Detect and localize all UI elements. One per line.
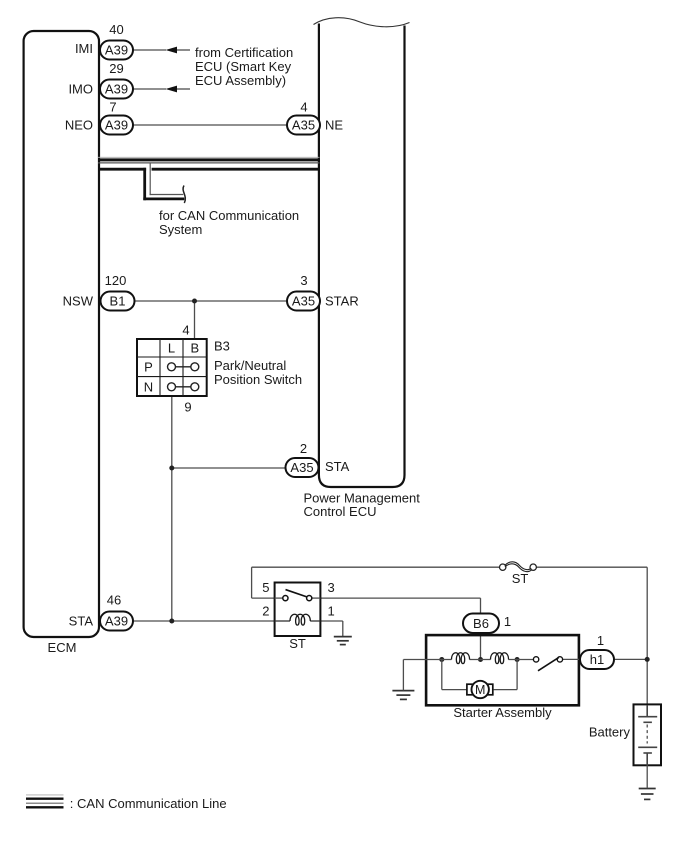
svg-text:B: B [190, 341, 199, 356]
svg-text:A39: A39 [105, 43, 128, 58]
svg-text:2: 2 [262, 604, 269, 619]
svg-text:NE: NE [325, 118, 343, 133]
svg-text:Starter Assembly: Starter Assembly [453, 705, 552, 720]
svg-text:: CAN Communication Line: : CAN Communication Line [70, 796, 227, 811]
svg-text:5: 5 [262, 580, 269, 595]
svg-text:4: 4 [300, 100, 307, 115]
svg-text:29: 29 [109, 61, 123, 76]
svg-text:3: 3 [300, 273, 307, 288]
svg-text:1: 1 [504, 614, 511, 629]
svg-text:4: 4 [182, 323, 189, 338]
svg-text:40: 40 [109, 22, 123, 37]
svg-text:L: L [168, 341, 175, 356]
svg-text:9: 9 [184, 400, 191, 415]
svg-text:STA: STA [325, 459, 350, 474]
svg-text:IMI: IMI [75, 41, 93, 56]
svg-text:Position Switch: Position Switch [214, 372, 302, 387]
svg-text:A35: A35 [290, 460, 313, 475]
svg-text:A39: A39 [105, 614, 128, 629]
svg-text:h1: h1 [590, 652, 604, 667]
svg-text:STA: STA [69, 614, 94, 629]
svg-text:ST: ST [289, 636, 306, 651]
svg-text:P: P [144, 360, 153, 375]
svg-text:ECU (Smart Key: ECU (Smart Key [195, 59, 292, 74]
svg-text:1: 1 [328, 604, 335, 619]
svg-text:1: 1 [597, 633, 604, 648]
svg-text:2: 2 [300, 441, 307, 456]
svg-text:M: M [475, 683, 485, 697]
svg-text:from Certification: from Certification [195, 45, 293, 60]
svg-text:3: 3 [328, 580, 335, 595]
svg-text:IMO: IMO [68, 82, 93, 97]
svg-text:NEO: NEO [65, 118, 93, 133]
svg-text:B3: B3 [214, 339, 230, 354]
svg-text:Control ECU: Control ECU [304, 504, 377, 519]
svg-text:B1: B1 [110, 294, 126, 309]
svg-text:A39: A39 [105, 118, 128, 133]
svg-text:120: 120 [105, 273, 127, 288]
svg-text:ECM: ECM [48, 640, 77, 655]
svg-text:N: N [144, 380, 153, 395]
svg-text:46: 46 [107, 593, 121, 608]
svg-text:A35: A35 [292, 294, 315, 309]
svg-text:Battery: Battery [589, 725, 631, 740]
svg-text:B6: B6 [473, 616, 489, 631]
svg-text:NSW: NSW [63, 294, 94, 309]
svg-text:Park/Neutral: Park/Neutral [214, 358, 286, 373]
svg-text:ST: ST [512, 571, 529, 586]
svg-text:ECU Assembly): ECU Assembly) [195, 73, 286, 88]
svg-text:STAR: STAR [325, 294, 359, 309]
svg-text:7: 7 [109, 100, 116, 115]
svg-text:A39: A39 [105, 82, 128, 97]
svg-text:for CAN Communication: for CAN Communication [159, 208, 299, 223]
svg-text:System: System [159, 222, 202, 237]
svg-text:A35: A35 [292, 118, 315, 133]
